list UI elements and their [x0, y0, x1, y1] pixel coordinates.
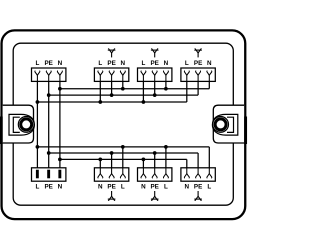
clamp terminal	[207, 71, 209, 75]
junction dot bottom N bus x=100	[98, 158, 102, 162]
terminal block bottom 1	[32, 168, 66, 181]
clamp terminal	[207, 174, 209, 178]
clamp terminal	[152, 174, 154, 178]
svg-text:PE: PE	[44, 183, 52, 190]
right ear screw hole	[213, 117, 229, 133]
terminal block bottom 4	[181, 168, 215, 181]
right wall mounting bump	[244, 117, 247, 145]
svg-text:L: L	[98, 60, 102, 67]
input terminal pin	[47, 170, 50, 179]
outer case outline	[2, 30, 246, 219]
svg-text:N: N	[185, 183, 190, 190]
inner lid outline	[13, 43, 233, 205]
junction dot top N bus x=166	[164, 87, 168, 91]
junction dot top L bus x=37	[36, 100, 40, 104]
wire N drop top block 3	[165, 81, 167, 88]
svg-text:N: N	[58, 183, 63, 190]
svg-text:N: N	[98, 183, 103, 190]
clamp terminal	[196, 174, 198, 178]
svg-text:L: L	[35, 183, 39, 190]
wire PE drop top block 3	[154, 81, 156, 95]
svg-text:N: N	[141, 183, 146, 190]
svg-text:PE: PE	[44, 60, 52, 67]
junction dot top N bus x=60	[58, 87, 62, 91]
junction dot top L bus x=143	[142, 100, 146, 104]
terminal block top 2	[94, 68, 128, 81]
clamp terminal	[109, 71, 111, 75]
junction dot bottom L bus x=166	[164, 145, 168, 149]
wire PE feed riser	[48, 81, 50, 167]
bottom PE bus	[49, 152, 198, 154]
clamp terminal	[120, 71, 122, 75]
wire PE riser bottom block 4	[197, 153, 199, 168]
top PE bus	[49, 94, 198, 96]
wire L drop top block 3	[142, 81, 144, 102]
wire PE drop top block 2	[111, 81, 113, 95]
clamp terminal	[46, 71, 48, 75]
junction dot bottom L bus x=123	[121, 145, 125, 149]
wire N feed riser	[59, 81, 61, 167]
junction dot top N bus x=123	[121, 87, 125, 91]
junction dot bottom N bus x=60	[58, 158, 62, 162]
junction dot top L bus x=100	[98, 100, 102, 104]
wire N riser bottom block 4	[186, 159, 188, 167]
junction dot bottom N bus x=143	[142, 158, 146, 162]
clamp terminal	[57, 71, 59, 75]
junction dot top PE bus x=49	[47, 93, 51, 97]
top L bus	[37, 101, 186, 103]
junction dot bottom L bus x=37	[36, 145, 40, 149]
svg-text:L: L	[164, 183, 168, 190]
wire L riser bottom block 4	[208, 147, 210, 168]
luminaire outlet symbol above top block 3	[151, 49, 159, 51]
input terminal pin	[36, 170, 39, 179]
svg-text:N: N	[58, 60, 63, 67]
clamp terminal	[141, 71, 143, 75]
clamp terminal	[109, 174, 111, 178]
terminal block top 4	[181, 68, 215, 81]
input terminal pin	[58, 170, 61, 179]
wire L riser bottom block 3	[165, 147, 167, 168]
junction dot bottom PE bus x=155	[153, 151, 157, 155]
wire L drop top block 2	[99, 81, 101, 102]
right ear pocket cutout	[213, 105, 244, 143]
svg-text:L: L	[185, 60, 189, 67]
luminaire outlet symbol above top block 4	[194, 49, 202, 51]
svg-text:N: N	[164, 60, 169, 67]
clamp terminal	[120, 174, 122, 178]
svg-text:PE: PE	[194, 60, 202, 67]
terminal block bottom 2	[94, 168, 128, 181]
svg-text:PE: PE	[194, 183, 202, 190]
svg-text:N: N	[207, 60, 212, 67]
wire L drop top block 4	[186, 81, 188, 102]
svg-text:PE: PE	[150, 183, 158, 190]
clamp terminal	[196, 71, 198, 75]
right mounting ear lug	[212, 114, 237, 135]
junction dot top PE bus x=112	[110, 93, 114, 97]
junction dot bottom PE bus x=112	[110, 151, 114, 155]
svg-text:PE: PE	[150, 60, 158, 67]
svg-text:PE: PE	[107, 183, 115, 190]
svg-text:L: L	[141, 60, 145, 67]
luminaire outlet symbol below bottom block 3	[151, 198, 159, 200]
clamp terminal	[184, 174, 186, 178]
wire N drop top block 4	[208, 81, 210, 88]
clamp terminal	[184, 71, 186, 75]
terminal block top 3	[138, 68, 172, 81]
top N bus	[60, 88, 209, 90]
left ear pocket cutout	[3, 105, 34, 143]
wire PE drop top block 4	[197, 81, 199, 95]
svg-text:PE: PE	[107, 60, 115, 67]
left ear screw hole	[18, 117, 34, 133]
clamp terminal	[98, 71, 100, 75]
junction dot top PE bus x=155	[153, 93, 157, 97]
clamp terminal	[152, 71, 154, 75]
junction dot bottom PE bus x=49	[47, 151, 51, 155]
wire N drop top block 2	[122, 81, 124, 88]
wire PE riser bottom block 3	[154, 153, 156, 168]
svg-text:N: N	[121, 60, 126, 67]
wire L feed riser	[36, 81, 38, 167]
clamp terminal	[164, 174, 166, 178]
luminaire outlet symbol below bottom block 2	[108, 198, 116, 200]
clamp terminal	[35, 71, 37, 75]
bottom L bus	[37, 146, 209, 148]
wire N riser bottom block 2	[99, 159, 101, 167]
wire N riser bottom block 3	[142, 159, 144, 167]
clamp terminal	[141, 174, 143, 178]
luminaire outlet symbol above top block 2	[108, 49, 116, 51]
clamp terminal	[98, 174, 100, 178]
svg-text:L: L	[207, 183, 211, 190]
terminal block top 1	[32, 68, 66, 81]
left mounting ear lug	[9, 114, 34, 135]
wire PE riser bottom block 2	[111, 153, 113, 168]
svg-text:L: L	[121, 183, 125, 190]
clamp terminal	[164, 71, 166, 75]
terminal block bottom 3	[138, 168, 172, 181]
svg-text:L: L	[35, 60, 39, 67]
wire L riser bottom block 2	[122, 147, 124, 168]
bottom N bus	[60, 158, 187, 160]
left wall mounting bump	[0, 117, 3, 145]
luminaire outlet symbol below bottom block 4	[194, 198, 202, 200]
